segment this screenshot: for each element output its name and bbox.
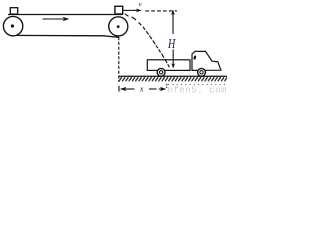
truck cab and hood — [192, 51, 221, 70]
x dimension left arrow — [120, 87, 127, 91]
svg-text:x: x — [139, 84, 144, 94]
svg-text:H: H — [167, 36, 176, 51]
H dimension down arrow — [172, 49, 174, 64]
belt motion arrow — [43, 18, 65, 20]
velocity v arrow — [123, 9, 137, 11]
x dimension right arrow — [149, 88, 157, 90]
projectile trajectory dashed curve — [125, 14, 170, 67]
right pulley axle dot — [117, 25, 120, 28]
truck rear wheel — [157, 68, 165, 76]
belt bottom line — [13, 35, 120, 37]
belt top line — [8, 14, 123, 16]
dashed vertical drop line below pulley — [118, 37, 120, 82]
ground line — [119, 75, 227, 77]
dashed height reference line — [145, 10, 177, 12]
driver silhouette — [193, 55, 196, 60]
svg-text:nfen5. com: nfen5. com — [168, 86, 228, 95]
left pulley wheel — [3, 16, 22, 35]
block at launch point — [115, 6, 123, 14]
H dimension up arrow — [172, 14, 174, 35]
watermark dotted rule — [168, 84, 227, 86]
left pulley axle dot — [11, 24, 14, 27]
ground hatching — [119, 77, 227, 82]
x dimension right dashed tick — [166, 84, 168, 88]
block on left end of belt — [10, 8, 17, 14]
truck front wheel — [198, 68, 206, 76]
right pulley wheel — [109, 17, 128, 36]
svg-text:v: v — [138, 0, 142, 8]
truck bed — [147, 60, 190, 71]
x dimension left tick — [118, 86, 120, 92]
